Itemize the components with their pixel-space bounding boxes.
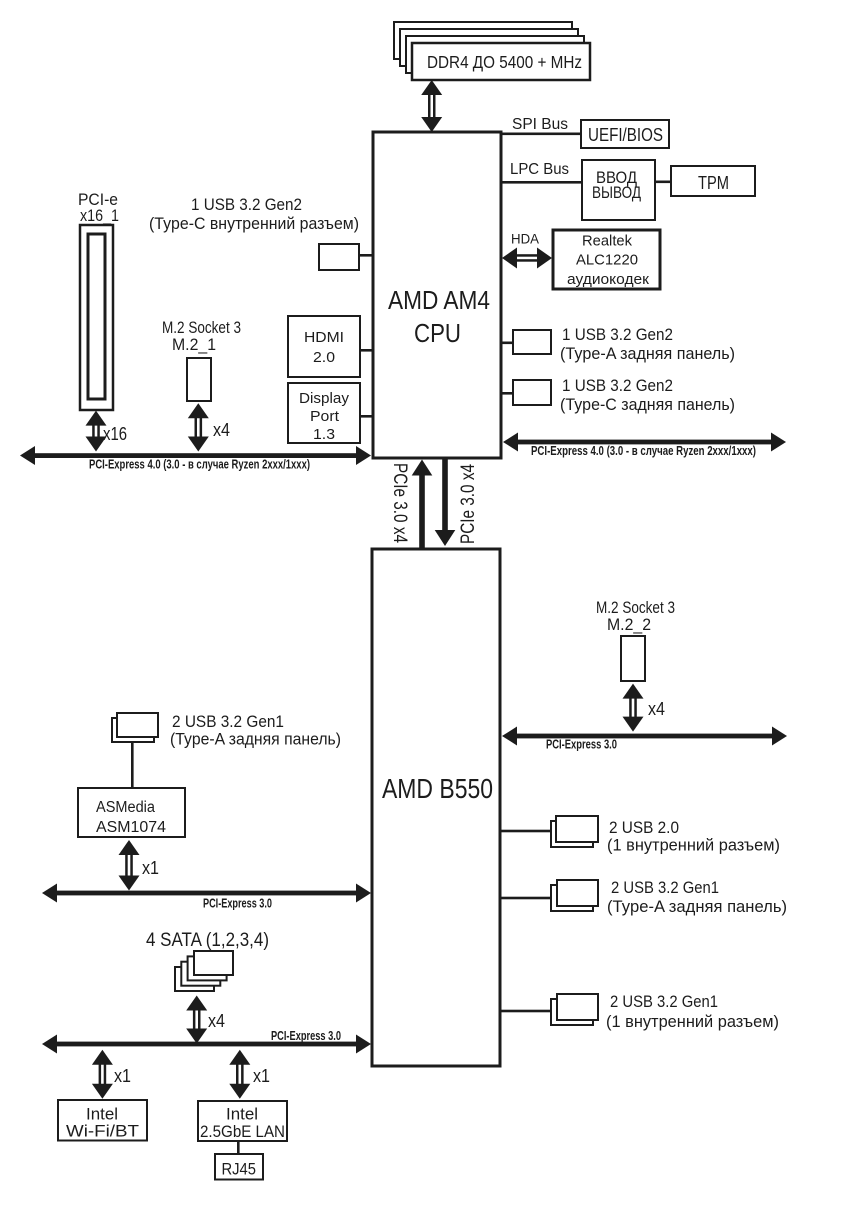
svg-text:HDMI: HDMI	[304, 329, 344, 346]
arrow CPU-B550 down	[435, 458, 456, 546]
bus PCIe4 left	[20, 446, 371, 465]
svg-text:AMD B550: AMD B550	[382, 773, 493, 804]
box DisplayPort	[288, 383, 360, 443]
svg-text:DDR4 ДО 5400 + MHz: DDR4 ДО 5400 + MHz	[427, 52, 582, 72]
svg-text:x4: x4	[213, 420, 230, 440]
wire DP-CPU	[360, 415, 373, 418]
box Intel WiFi/BT	[58, 1100, 147, 1141]
bus PCIe3 right	[502, 727, 787, 746]
svg-text:2.0: 2.0	[313, 349, 335, 366]
svg-text:x16: x16	[103, 424, 127, 444]
svg-text:2.5GbE LAN: 2.5GbE LAN	[200, 1123, 285, 1141]
svg-text:(Type-A задняя панель): (Type-A задняя панель)	[607, 897, 787, 916]
stack USB ASMedia front	[117, 713, 158, 737]
svg-text:ALC1220: ALC1220	[576, 252, 638, 269]
wire HDMI-CPU	[360, 349, 373, 352]
svg-text:(Type-A задняя панель): (Type-A задняя панель)	[170, 730, 341, 749]
wire CPU-USB-A rear	[501, 342, 513, 345]
box TPM	[671, 166, 755, 196]
svg-text:UEFI/BIOS: UEFI/BIOS	[588, 124, 663, 145]
svg-text:x16_1: x16_1	[80, 206, 119, 225]
arrow M.2_1 to bus	[188, 403, 209, 451]
svg-text:1 USB 3.2 Gen2: 1 USB 3.2 Gen2	[562, 376, 673, 395]
box Intel 2.5GbE LAN	[198, 1101, 287, 1141]
svg-text:M.2_1: M.2_1	[172, 335, 216, 354]
svg-text:TPM: TPM	[698, 172, 729, 193]
arrow HDA	[502, 248, 552, 269]
box IO (ВВОД ВЫВОД)	[582, 160, 655, 220]
svg-text:PCIe 3.0 x4: PCIe 3.0 x4	[389, 463, 410, 543]
stack USB2.0 front	[556, 816, 598, 842]
stack SATA boxes	[175, 951, 233, 991]
slot PCIe x16 inner	[88, 234, 105, 399]
slot PCIe x16 outer	[80, 225, 113, 410]
wire IO-TPM	[655, 181, 671, 184]
wire LPC bus	[501, 181, 582, 184]
svg-text:PCI-Express 3.0: PCI-Express 3.0	[203, 896, 272, 911]
box UEFI/BIOS	[581, 120, 669, 148]
arrow LAN to bus	[229, 1050, 250, 1099]
svg-text:SPI Bus: SPI Bus	[512, 116, 568, 133]
svg-text:2 USB 3.2 Gen1: 2 USB 3.2 Gen1	[610, 992, 718, 1011]
arrow x16 slot to bus	[86, 411, 107, 452]
svg-text:Wi-Fi/BT: Wi-Fi/BT	[66, 1123, 139, 1141]
box audio Realtek ALC1220	[553, 230, 660, 289]
svg-text:1 USB 3.2 Gen2: 1 USB 3.2 Gen2	[562, 325, 673, 344]
svg-text:PCI-Express 4.0 (3.0 - в случа: PCI-Express 4.0 (3.0 - в случае Ryzen 2x…	[531, 443, 756, 458]
box ASMedia ASM1074	[78, 788, 185, 837]
svg-text:Realtek: Realtek	[582, 233, 632, 250]
bus PCIe3 mid-left	[42, 884, 371, 903]
memory box DDR4 front	[412, 43, 590, 80]
svg-text:аудиокодек: аудиокодек	[567, 271, 649, 288]
svg-text:(1 внутренний разъем): (1 внутренний разъем)	[606, 1012, 779, 1031]
svg-text:PCIe 3.0 x4: PCIe 3.0 x4	[458, 464, 479, 544]
arrow ASMedia to bus	[119, 840, 140, 891]
svg-text:Intel: Intel	[86, 1106, 118, 1124]
svg-text:(Type-C внутренний разъем): (Type-C внутренний разъем)	[149, 214, 359, 233]
svg-text:CPU: CPU	[414, 318, 461, 348]
stack USB ASMedia back	[112, 718, 154, 742]
wire B550 to USB3.2 rear stack	[500, 897, 557, 900]
arrow SATA to bus	[186, 996, 207, 1044]
svg-text:ВЫВОД: ВЫВОД	[592, 183, 641, 202]
svg-text:HDA: HDA	[511, 231, 540, 247]
svg-text:x1: x1	[114, 1066, 131, 1086]
svg-text:(Type-A задняя панель): (Type-A задняя панель)	[560, 344, 735, 363]
memory stack DDR4 back boxes	[394, 22, 584, 73]
svg-text:x4: x4	[208, 1011, 225, 1031]
svg-text:2 USB 3.2 Gen1: 2 USB 3.2 Gen1	[611, 878, 719, 897]
box USB-A rear	[513, 330, 551, 354]
svg-text:Intel: Intel	[226, 1106, 258, 1124]
arrow WiFi to bus	[92, 1050, 113, 1099]
svg-text:Port: Port	[310, 408, 340, 425]
stack USB3.2 int back	[551, 999, 593, 1025]
stack USB2.0 back	[551, 821, 593, 847]
arrow CPU-B550 up	[412, 460, 433, 550]
svg-text:(Type-C задняя панель): (Type-C задняя панель)	[560, 395, 735, 414]
box USB-C rear	[513, 380, 551, 405]
svg-text:x1: x1	[142, 858, 159, 878]
svg-text:4 SATA (1,2,3,4): 4 SATA (1,2,3,4)	[146, 929, 269, 951]
box HDMI	[288, 316, 360, 377]
arrow M.2_2 to bus	[623, 684, 644, 732]
arrow DDR4-CPU	[421, 80, 442, 132]
bus PCIe4 right	[503, 433, 786, 452]
stack USB3.2 rear back	[551, 885, 593, 911]
svg-text:2 USB 2.0: 2 USB 2.0	[609, 818, 679, 837]
svg-text:AMD AM4: AMD AM4	[388, 285, 490, 315]
wire USB-C internal to CPU	[359, 254, 373, 257]
box B550	[372, 549, 500, 1066]
svg-text:ASM1074: ASM1074	[96, 819, 166, 836]
svg-text:Display: Display	[299, 390, 350, 407]
bus PCIe3 bottom-left	[42, 1035, 371, 1054]
wire USB stack to ASMedia	[131, 742, 134, 788]
svg-text:PCI-Express 4.0 (3.0 - в случа: PCI-Express 4.0 (3.0 - в случае Ryzen 2x…	[89, 457, 310, 472]
svg-text:x4: x4	[648, 699, 665, 719]
box M.2_2	[621, 636, 645, 681]
wire SPI bus	[501, 133, 582, 136]
svg-text:ASMedia: ASMedia	[96, 799, 155, 816]
wire LAN-RJ45	[237, 1141, 240, 1154]
box CPU	[373, 132, 501, 458]
box USB-C internal	[319, 244, 359, 270]
svg-text:1.3: 1.3	[313, 426, 335, 443]
wire B550 to USB3.2 int stack	[500, 1010, 557, 1013]
svg-text:PCI-Express 3.0: PCI-Express 3.0	[271, 1028, 341, 1043]
stack USB3.2 rear front	[557, 880, 598, 906]
svg-text:x1: x1	[253, 1066, 270, 1086]
svg-text:(1 внутренний разъем): (1 внутренний разъем)	[607, 836, 780, 855]
svg-text:PCI-Express 3.0: PCI-Express 3.0	[546, 737, 617, 752]
box RJ45	[215, 1154, 263, 1180]
svg-text:RJ45: RJ45	[222, 1160, 257, 1179]
box M.2_1	[187, 358, 211, 401]
wire B550 to USB2.0 stack	[500, 830, 551, 833]
svg-text:1 USB 3.2 Gen2: 1 USB 3.2 Gen2	[191, 195, 302, 214]
svg-text:LPC Bus: LPC Bus	[510, 161, 569, 178]
wire CPU-USB-C rear	[501, 392, 513, 395]
stack USB3.2 int front	[557, 994, 598, 1020]
svg-text:2 USB 3.2 Gen1: 2 USB 3.2 Gen1	[172, 712, 284, 731]
svg-text:M.2_2: M.2_2	[607, 615, 651, 634]
